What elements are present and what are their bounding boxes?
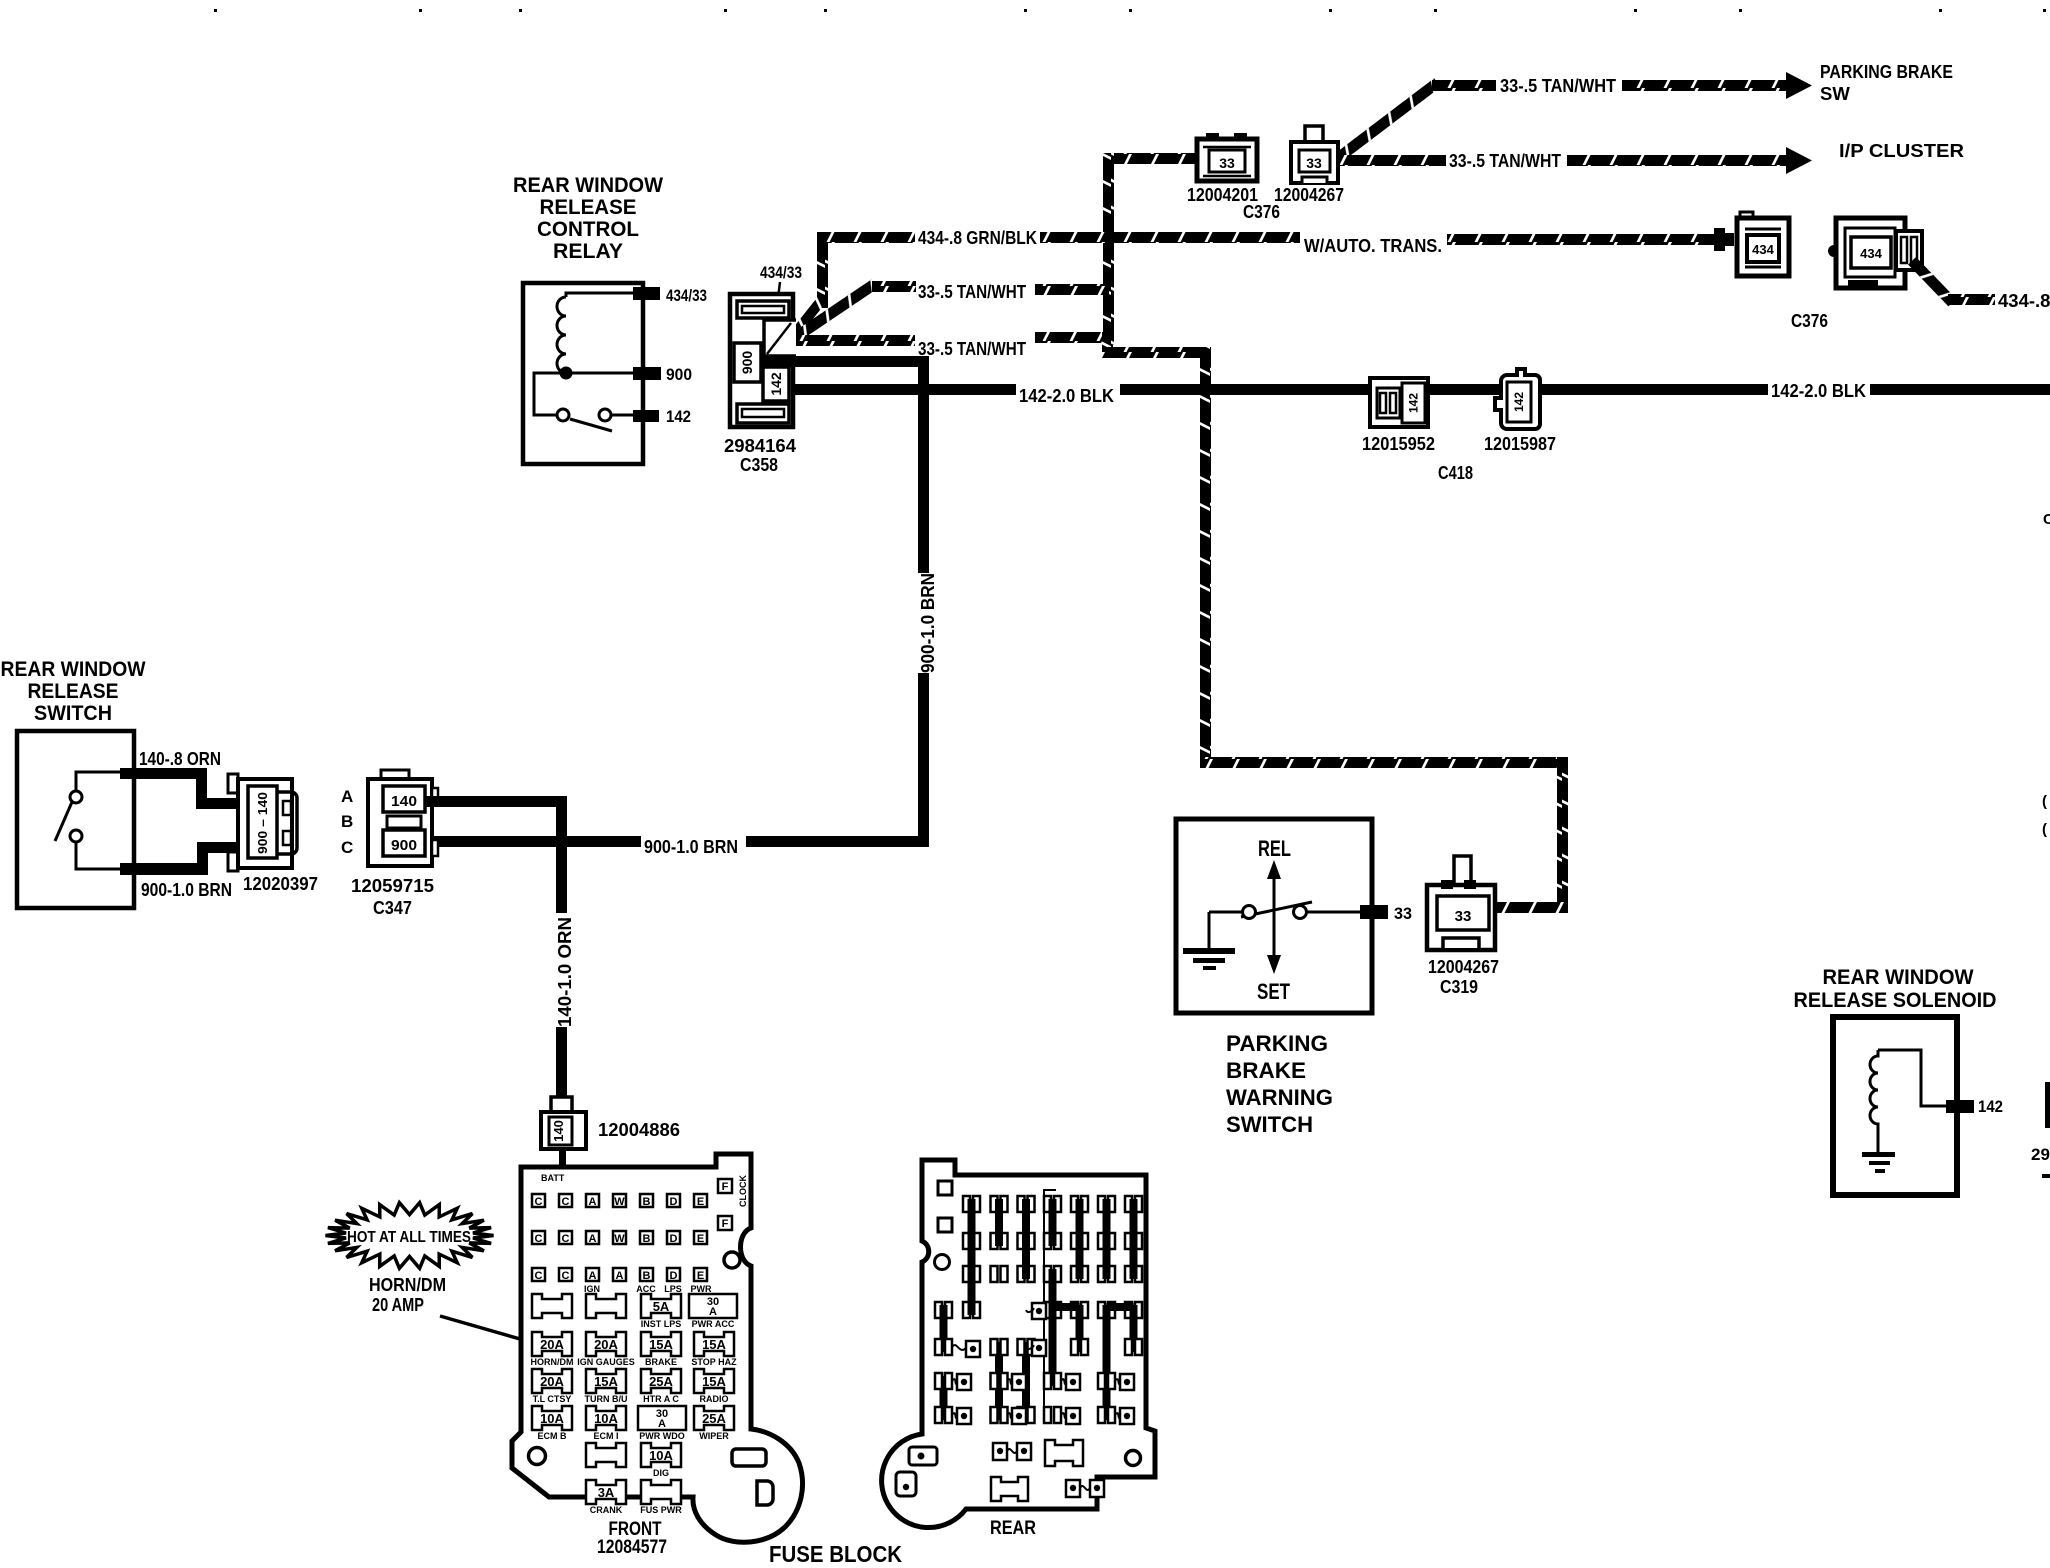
svg-text:142: 142 xyxy=(1407,393,1421,413)
svg-text:12015952: 12015952 xyxy=(1362,433,1435,454)
svg-text:15A: 15A xyxy=(594,1374,618,1389)
svg-text:(: ( xyxy=(2042,793,2047,810)
svg-text:C319: C319 xyxy=(1440,976,1478,997)
svg-text:C376: C376 xyxy=(1791,310,1828,331)
svg-text:W/AUTO. TRANS.: W/AUTO. TRANS. xyxy=(1304,235,1442,256)
svg-text:BRAKE: BRAKE xyxy=(645,1357,677,1367)
svg-text:C: C xyxy=(341,838,353,857)
svg-text:RELEASE SOLENOID: RELEASE SOLENOID xyxy=(1794,989,1997,1012)
svg-text:F: F xyxy=(722,1181,729,1193)
svg-text:900-1.0 BRN: 900-1.0 BRN xyxy=(917,573,938,673)
svg-text:33: 33 xyxy=(1306,155,1322,171)
svg-text:BATT: BATT xyxy=(541,1173,565,1183)
svg-text:140: 140 xyxy=(391,793,417,810)
svg-text:REAR WINDOW: REAR WINDOW xyxy=(1,658,146,681)
svg-text:33-.5 TAN/WHT: 33-.5 TAN/WHT xyxy=(1500,75,1617,96)
svg-text:C358: C358 xyxy=(740,454,778,475)
svg-text:140: 140 xyxy=(551,1120,566,1142)
svg-text:REL: REL xyxy=(1258,836,1291,861)
svg-text:A: A xyxy=(589,1233,597,1245)
svg-text:STOP HAZ: STOP HAZ xyxy=(691,1357,737,1367)
svg-text:F: F xyxy=(722,1218,729,1230)
svg-text:LPS: LPS xyxy=(664,1284,682,1294)
svg-text:E: E xyxy=(697,1270,704,1282)
svg-text:HTR A C: HTR A C xyxy=(643,1394,679,1404)
svg-text:12059715: 12059715 xyxy=(351,875,434,896)
svg-text:HORN/DM: HORN/DM xyxy=(531,1357,574,1367)
svg-text:33: 33 xyxy=(1219,155,1235,171)
svg-text:REAR WINDOW: REAR WINDOW xyxy=(1823,966,1974,989)
svg-text:W: W xyxy=(614,1196,625,1208)
svg-text:T.L CTSY: T.L CTSY xyxy=(533,1394,572,1404)
svg-text:140-1.0 ORN: 140-1.0 ORN xyxy=(554,917,575,1027)
svg-text:CRANK: CRANK xyxy=(590,1505,623,1515)
svg-text:434/33: 434/33 xyxy=(666,286,707,305)
svg-text:142-2.0 BLK: 142-2.0 BLK xyxy=(1019,385,1115,406)
svg-text:INST LPS: INST LPS xyxy=(641,1319,682,1329)
svg-text:12020397: 12020397 xyxy=(243,873,318,894)
svg-text:DIG: DIG xyxy=(653,1468,669,1478)
svg-text:434-.8 GRN/BLK: 434-.8 GRN/BLK xyxy=(918,227,1038,248)
svg-text:10A: 10A xyxy=(649,1448,673,1463)
svg-text:HOT AT ALL TIMES: HOT AT ALL TIMES xyxy=(347,1229,471,1246)
svg-text:29: 29 xyxy=(2031,1145,2050,1164)
svg-text:E: E xyxy=(697,1196,704,1208)
svg-text:IGN: IGN xyxy=(584,1284,600,1294)
svg-text:WARNING: WARNING xyxy=(1226,1085,1333,1110)
svg-text:A: A xyxy=(589,1196,597,1208)
svg-text:33-.5 TAN/WHT: 33-.5 TAN/WHT xyxy=(918,338,1027,359)
svg-text:RELEASE: RELEASE xyxy=(28,680,119,703)
svg-text:CLOCK: CLOCK xyxy=(738,1175,748,1207)
svg-text:CONTROL: CONTROL xyxy=(537,218,639,241)
svg-text:142: 142 xyxy=(768,372,784,396)
svg-text:FUS PWR: FUS PWR xyxy=(640,1505,682,1515)
svg-text:D: D xyxy=(670,1196,678,1208)
svg-text:C: C xyxy=(562,1270,570,1282)
svg-text:C347: C347 xyxy=(373,897,412,918)
svg-text:C: C xyxy=(2043,511,2050,528)
svg-text:D: D xyxy=(670,1233,678,1245)
svg-text:WIPER: WIPER xyxy=(699,1431,729,1441)
svg-text:PARKING BRAKE: PARKING BRAKE xyxy=(1820,61,1953,82)
svg-text:REAR WINDOW: REAR WINDOW xyxy=(513,174,663,197)
svg-text:C376: C376 xyxy=(1243,201,1280,222)
svg-text:A: A xyxy=(341,787,353,806)
svg-text:B: B xyxy=(643,1196,651,1208)
svg-text:10A: 10A xyxy=(540,1411,564,1426)
svg-text:2984164: 2984164 xyxy=(724,435,797,456)
svg-text:140-.8 ORN: 140-.8 ORN xyxy=(139,748,221,769)
svg-text:SW: SW xyxy=(1820,83,1850,104)
svg-text:A: A xyxy=(658,1418,666,1430)
svg-text:33: 33 xyxy=(1394,904,1412,923)
svg-text:RELAY: RELAY xyxy=(553,240,623,263)
svg-text:FUSE BLOCK: FUSE BLOCK xyxy=(769,1541,902,1567)
svg-text:IGN GAUGES: IGN GAUGES xyxy=(577,1357,635,1367)
svg-text:900 – 140: 900 – 140 xyxy=(256,792,270,854)
svg-text:W: W xyxy=(614,1233,625,1245)
svg-text:RELEASE: RELEASE xyxy=(540,196,637,219)
svg-text:15A: 15A xyxy=(702,1337,726,1352)
svg-text:900: 900 xyxy=(666,365,692,384)
svg-text:10A: 10A xyxy=(594,1411,618,1426)
svg-text:25A: 25A xyxy=(649,1374,673,1389)
svg-text:12004886: 12004886 xyxy=(598,1119,680,1140)
svg-text:434/33: 434/33 xyxy=(760,263,802,282)
svg-text:B: B xyxy=(643,1233,651,1245)
svg-text:142: 142 xyxy=(666,407,691,426)
svg-text:A: A xyxy=(616,1270,624,1282)
svg-text:PARKING: PARKING xyxy=(1226,1031,1328,1056)
svg-text:25A: 25A xyxy=(702,1411,726,1426)
svg-text:BRAKE: BRAKE xyxy=(1226,1058,1306,1083)
svg-text:33-.5 TAN/WHT: 33-.5 TAN/WHT xyxy=(1449,150,1562,171)
svg-text:142-2.0 BLK: 142-2.0 BLK xyxy=(1771,380,1867,401)
svg-text:15A: 15A xyxy=(649,1337,673,1352)
svg-text:434: 434 xyxy=(1860,246,1882,261)
svg-text:434: 434 xyxy=(1752,242,1774,257)
svg-text:434-.8 G: 434-.8 G xyxy=(1998,290,2050,311)
svg-text:E: E xyxy=(697,1233,704,1245)
svg-text:SET: SET xyxy=(1257,979,1290,1004)
svg-text:RADIO: RADIO xyxy=(700,1394,729,1404)
svg-text:PWR ACC: PWR ACC xyxy=(692,1319,735,1329)
svg-text:20A: 20A xyxy=(594,1337,618,1352)
svg-text:ECM B: ECM B xyxy=(538,1431,568,1441)
svg-text:PWR: PWR xyxy=(691,1284,712,1294)
svg-text:SWITCH: SWITCH xyxy=(34,702,112,725)
svg-text:20A: 20A xyxy=(540,1374,564,1389)
svg-text:D: D xyxy=(670,1270,678,1282)
svg-text:900: 900 xyxy=(391,837,417,854)
svg-text:142: 142 xyxy=(1978,1097,2003,1116)
svg-text:12084577: 12084577 xyxy=(597,1537,667,1558)
svg-text:B: B xyxy=(341,812,353,831)
svg-text:33-.5 TAN/WHT: 33-.5 TAN/WHT xyxy=(918,281,1027,302)
svg-text:ECM I: ECM I xyxy=(593,1431,618,1441)
svg-text:33: 33 xyxy=(1455,908,1472,925)
svg-text:HORN/DM: HORN/DM xyxy=(369,1274,446,1295)
svg-text:3A: 3A xyxy=(598,1485,615,1500)
svg-text:I/P CLUSTER: I/P CLUSTER xyxy=(1839,140,1964,161)
svg-text:B: B xyxy=(643,1270,651,1282)
svg-text:142: 142 xyxy=(1512,392,1526,412)
svg-text:C: C xyxy=(535,1196,543,1208)
svg-text:SWITCH: SWITCH xyxy=(1226,1112,1313,1137)
svg-text:C: C xyxy=(562,1196,570,1208)
svg-text:A: A xyxy=(709,1306,717,1318)
svg-text:C: C xyxy=(535,1270,543,1282)
svg-text:PWR WDO: PWR WDO xyxy=(639,1431,685,1441)
svg-text:900-1.0 BRN: 900-1.0 BRN xyxy=(141,879,232,900)
svg-text:900-1.0 BRN: 900-1.0 BRN xyxy=(644,836,738,857)
svg-text:5A: 5A xyxy=(653,1299,670,1314)
svg-text:C418: C418 xyxy=(1438,462,1473,483)
svg-text:(: ( xyxy=(2042,821,2047,838)
svg-text:REAR: REAR xyxy=(990,1518,1036,1539)
svg-text:12004267: 12004267 xyxy=(1274,184,1344,205)
svg-text:TURN B/U: TURN B/U xyxy=(585,1394,628,1404)
svg-text:20A: 20A xyxy=(540,1337,564,1352)
svg-text:12015987: 12015987 xyxy=(1484,433,1556,454)
svg-text:12004267: 12004267 xyxy=(1428,956,1499,977)
svg-text:900: 900 xyxy=(739,351,755,375)
svg-text:15A: 15A xyxy=(702,1374,726,1389)
svg-text:A: A xyxy=(589,1270,597,1282)
svg-text:C: C xyxy=(535,1233,543,1245)
svg-text:ACC: ACC xyxy=(636,1284,656,1294)
svg-text:20 AMP: 20 AMP xyxy=(372,1294,424,1315)
svg-text:C: C xyxy=(562,1233,570,1245)
